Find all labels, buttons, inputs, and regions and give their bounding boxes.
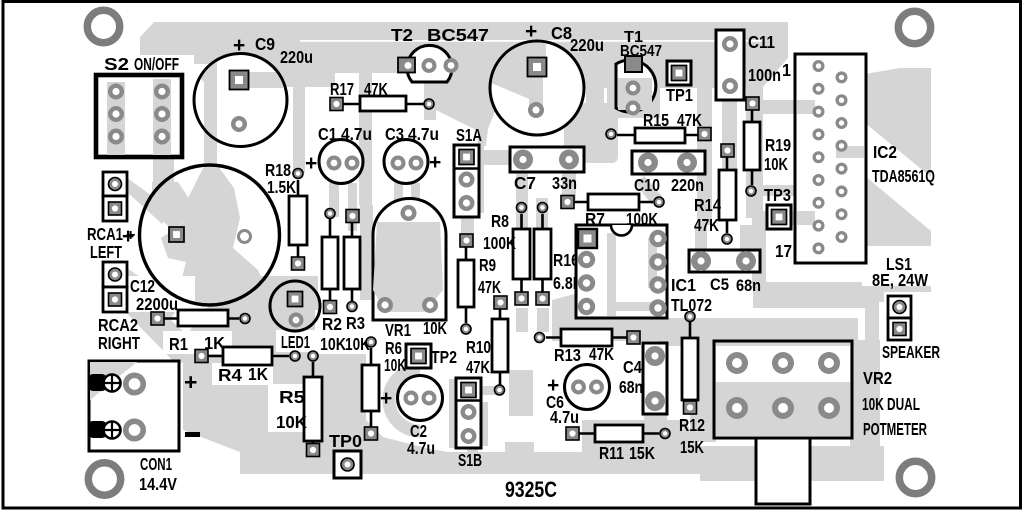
wire R15 drop: [697, 86, 712, 130]
wire IC1 to pot pour: [552, 287, 665, 341]
svg-text:8E, 24W: 8E, 24W: [872, 270, 928, 290]
svg-text:4.7u: 4.7u: [550, 407, 579, 427]
svg-text:LED1: LED1: [281, 332, 310, 352]
connector RCA1: [87, 172, 135, 262]
capacitor C12: [122, 165, 280, 314]
svg-text:TP3: TP3: [764, 185, 791, 205]
wire T1 zone: [607, 58, 660, 118]
resistor R13: [535, 329, 641, 365]
svg-text:C3: C3: [385, 124, 404, 144]
capacitor C1: [305, 124, 372, 184]
testpoint TP2: [406, 344, 457, 368]
svg-text:47K: 47K: [589, 344, 614, 364]
svg-text:R11: R11: [599, 443, 624, 463]
wire TP3 down to speaker block: [752, 218, 766, 288]
svg-text:R3: R3: [346, 313, 365, 333]
svg-text:47K: 47K: [364, 79, 388, 99]
svg-text:R5: R5: [279, 387, 305, 407]
svg-text:R14: R14: [694, 195, 721, 215]
svg-text:R12: R12: [679, 415, 705, 435]
svg-text:T2: T2: [391, 25, 413, 45]
wire R19 to TP3 horizontal: [754, 185, 800, 196]
wire strip to speaker area: [865, 284, 879, 480]
testpoint TP1: [666, 61, 693, 105]
svg-text:R13: R13: [554, 345, 581, 365]
wire IC2 stub a: [763, 100, 815, 114]
svg-text:TP1: TP1: [666, 85, 693, 105]
svg-text:LEFT: LEFT: [90, 242, 122, 262]
wire C4 drop: [644, 412, 667, 446]
resistor R8: [483, 203, 530, 306]
svg-text:RCA2: RCA2: [98, 315, 138, 335]
wire S2 down: [153, 155, 174, 203]
svg-text:47K: 47K: [478, 277, 501, 297]
switch S2: [96, 54, 182, 157]
wire C1 left pad down: [329, 183, 339, 217]
svg-text:100n: 100n: [748, 65, 781, 85]
svg-text:47K: 47K: [466, 357, 490, 377]
transistor T2: [391, 25, 489, 82]
testpoint TP3: [764, 185, 791, 229]
svg-text:C12: C12: [130, 276, 155, 296]
resistor R18: [265, 160, 307, 270]
svg-text:4.7u: 4.7u: [341, 124, 372, 144]
svg-text:2200u: 2200u: [136, 294, 178, 314]
wire blob between C7 and R15: [564, 103, 618, 163]
wire R16 top drop: [536, 198, 548, 232]
capacitor C4: [619, 343, 667, 414]
wire IC2 stub b: [763, 211, 815, 225]
svg-text:4.7u: 4.7u: [407, 438, 435, 458]
svg-text:15K: 15K: [680, 437, 704, 457]
mounting hole bottom-left: [88, 463, 120, 495]
wire band to S1A diagonal: [424, 73, 500, 146]
svg-text:47K: 47K: [694, 215, 719, 235]
testpoint TP0: [329, 431, 362, 478]
wire RCA2 to CON1 diagonals: [112, 288, 190, 366]
resistor R16: [534, 203, 583, 306]
wire C3 pads down: [394, 183, 403, 213]
resistor R4: [195, 347, 300, 385]
svg-text:9325C: 9325C: [505, 477, 557, 502]
svg-text:68n: 68n: [619, 377, 643, 397]
svg-text:33n: 33n: [552, 173, 577, 193]
mounting hole top-left: [87, 10, 119, 42]
wire R15 to C5 vertical: [697, 130, 712, 225]
wire C5 stubs up: [695, 225, 707, 252]
wire S1B side strips: [449, 379, 458, 448]
wire C7 to IC1 drops: [516, 170, 528, 232]
resistor R12: [679, 312, 705, 458]
svg-text:+: +: [380, 387, 392, 410]
svg-text:C11: C11: [748, 32, 775, 52]
mounting hole bottom-right: [899, 461, 931, 493]
wire IC1 bottom stubs: [580, 312, 594, 332]
capacitor C2: [380, 376, 443, 459]
svg-text:BC547: BC547: [620, 43, 662, 60]
svg-text:R4: R4: [218, 365, 242, 385]
wire C12 interior blob: [161, 166, 267, 307]
svg-text:100K: 100K: [483, 233, 516, 253]
capacitor C11: [716, 30, 781, 100]
wire IC1 interior feed: [590, 280, 610, 310]
svg-text:R1: R1: [169, 334, 188, 354]
svg-text:C5: C5: [710, 276, 729, 294]
svg-text:10K: 10K: [423, 318, 447, 338]
wire R19 TP3 vertical: [746, 30, 763, 218]
svg-text:68n: 68n: [736, 277, 761, 295]
svg-text:R17: R17: [330, 79, 354, 99]
svg-text:BC547: BC547: [427, 25, 489, 45]
wire T2 middle pad down: [424, 70, 436, 120]
wire C10 to R7: [636, 176, 662, 205]
svg-text:47K: 47K: [677, 110, 702, 130]
wire C8 vertical: [528, 44, 546, 131]
svg-text:10K: 10K: [320, 334, 346, 354]
svg-text:220n: 220n: [671, 175, 704, 195]
wire C1 C3 mid vertical: [359, 73, 372, 205]
svg-text:1.5K: 1.5K: [267, 177, 296, 197]
svg-text:10K: 10K: [764, 154, 788, 174]
svg-text:10K: 10K: [384, 355, 406, 375]
svg-text:SPEAKER: SPEAKER: [882, 342, 940, 362]
wire R8 R16 bottom stubs: [516, 308, 528, 332]
wire S1A bottom strip: [461, 213, 474, 241]
wire IC2 stub c: [836, 146, 866, 158]
svg-text:15K: 15K: [629, 443, 655, 463]
speaker connector LS1: [872, 254, 940, 362]
capacitor C3: [384, 124, 441, 184]
svg-text:10K DUAL: 10K DUAL: [862, 394, 920, 414]
capacitor C6: [546, 365, 610, 428]
svg-text:IC2: IC2: [873, 142, 897, 162]
wire RCA2 stub: [127, 268, 180, 320]
svg-text:220u: 220u: [570, 35, 604, 55]
svg-text:TP2: TP2: [431, 347, 457, 367]
svg-text:+: +: [525, 20, 537, 43]
slashes in right pour: [862, 246, 936, 286]
svg-text:VR2: VR2: [863, 368, 892, 388]
resistor R11: [566, 425, 670, 463]
svg-text:R9: R9: [479, 255, 496, 275]
potentiometer VR2: [714, 341, 927, 504]
resistor R2: [320, 209, 346, 355]
svg-text:C7: C7: [514, 173, 536, 193]
svg-text:R2: R2: [322, 314, 342, 334]
capacitor C7: [510, 147, 584, 193]
resistor R19: [744, 97, 791, 196]
wire R18 top vertical: [293, 73, 305, 173]
svg-text:C1: C1: [318, 124, 337, 144]
wire RCA1 stub: [127, 178, 172, 224]
svg-text:IC1: IC1: [671, 275, 696, 295]
TRACELAYER: [112, 22, 931, 481]
svg-text:C10: C10: [634, 175, 660, 195]
svg-text:S1B: S1B: [458, 450, 482, 470]
potentiometer VR1: [373, 198, 447, 340]
wire bottom band: [240, 420, 702, 474]
LED LED1: [270, 281, 320, 352]
svg-text:S1A: S1A: [456, 125, 482, 145]
resistor R14: [694, 144, 736, 244]
op-amp IC1 TL072: [576, 225, 712, 318]
wire S1A to C7: [470, 150, 518, 165]
wire C11 to R14: [722, 95, 737, 170]
switch S1A: [454, 125, 482, 217]
white label patches: [163, 331, 232, 354]
resistor R7: [561, 194, 664, 229]
svg-text:+: +: [184, 369, 197, 395]
capacitor C5: [689, 250, 761, 295]
svg-text:R8: R8: [491, 211, 509, 231]
svg-text:1K: 1K: [248, 364, 268, 384]
connector RCA2: [98, 262, 140, 353]
svg-text:C4: C4: [623, 357, 642, 377]
switch S1B: [456, 378, 482, 470]
svg-text:17: 17: [775, 241, 792, 261]
resistor R17: [330, 79, 434, 111]
wire around C2: [389, 369, 420, 431]
resistor R6: [362, 337, 406, 440]
transistor T1: [616, 29, 662, 116]
svg-text:+: +: [305, 152, 317, 175]
svg-text:CON1: CON1: [140, 454, 172, 474]
capacitor C9: [192, 34, 313, 150]
svg-text:+: +: [429, 151, 441, 174]
mounting hole top-right: [898, 11, 930, 43]
svg-text:1: 1: [782, 60, 791, 80]
resistor R5: [276, 351, 322, 457]
wire LED1 zone: [252, 276, 318, 332]
svg-text:C9: C9: [255, 34, 275, 54]
svg-text:S2: S2: [104, 54, 129, 74]
svg-text:R15: R15: [643, 110, 669, 130]
svg-text:4.7u: 4.7u: [408, 124, 439, 144]
svg-text:R10: R10: [466, 337, 491, 357]
svg-text:VR1: VR1: [385, 320, 411, 340]
svg-text:ON/OFF: ON/OFF: [134, 54, 179, 74]
svg-text:R19: R19: [765, 135, 791, 155]
wire pot pour left arm: [690, 318, 716, 442]
wire pot pour right arm: [850, 340, 880, 481]
svg-text:RCA1: RCA1: [87, 224, 123, 244]
wire pour right of IC2 lower block: [865, 176, 931, 302]
wire C9 to C12 strip: [204, 130, 217, 167]
resistor R15: [606, 110, 711, 143]
IC2 TDA8561Q: [775, 54, 935, 263]
wire pot pour top arm: [662, 318, 858, 346]
wire C1 right pad down: [348, 183, 357, 231]
capacitor C8: [489, 20, 604, 135]
wire top supply band: [140, 22, 788, 88]
svg-text:+: +: [126, 227, 135, 244]
svg-text:RIGHT: RIGHT: [98, 333, 140, 353]
connector CON1: [88, 361, 200, 494]
resistor R3: [344, 210, 370, 355]
svg-text:14.4V: 14.4V: [139, 474, 177, 494]
svg-text:+: +: [233, 34, 245, 57]
wire center bottom pour: [183, 295, 448, 452]
svg-text:POTMETER: POTMETER: [863, 419, 927, 439]
wire pour right of IC2 upper block: [865, 68, 931, 177]
resistor R9: [458, 234, 501, 334]
capacitor C10: [632, 151, 705, 195]
svg-text:10K: 10K: [276, 412, 307, 432]
wire pot interior: [716, 382, 850, 436]
svg-text:TDA8561Q: TDA8561Q: [872, 166, 935, 186]
svg-text:220u: 220u: [280, 47, 313, 67]
resistor R10: [466, 296, 508, 395]
svg-text:TP0: TP0: [329, 431, 362, 451]
wire block right of S1B channel: [509, 370, 533, 416]
wire pot pour bottom arm: [700, 446, 884, 481]
resistor R1: [151, 310, 250, 354]
